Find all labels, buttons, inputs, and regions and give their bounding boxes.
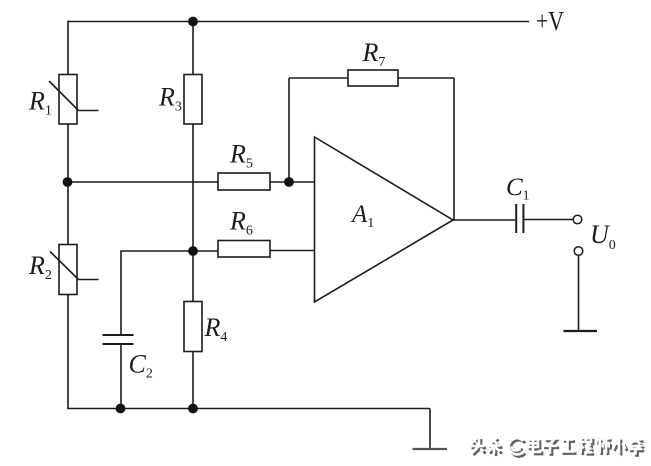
watermark 头条@电子工程师小李 (drawn as shapes) [472, 439, 645, 457]
node: top rail / R3 junction [188, 17, 198, 27]
svg-text:R3: R3 [158, 83, 182, 115]
svg-text:C2: C2 [129, 350, 153, 382]
resistor R1 [49, 75, 99, 125]
resistor R2 [50, 245, 99, 295]
svg-text:C1: C1 [506, 174, 529, 203]
output terminal upper [573, 215, 582, 224]
wire lower terminal to ground [578, 256, 580, 332]
capacitor C2 [103, 335, 134, 344]
node: R6 / R4 junction [188, 246, 198, 256]
resistor R7 [348, 70, 398, 86]
wire R3 bottom to R6 node [192, 123, 194, 251]
ground (output) [564, 330, 598, 332]
wire bottom rail [67, 408, 430, 410]
wire R4 bottom to bottom rail [192, 351, 194, 409]
wire C2 top corner horizontal (inverting row) [121, 251, 219, 335]
resistor R6 [218, 241, 270, 258]
wire R7 left horizontal [289, 77, 349, 79]
svg-text:R2: R2 [28, 251, 52, 283]
svg-text:R6: R6 [229, 207, 253, 239]
wire C2 bottom to bottom rail [120, 344, 122, 409]
wire R7 right horizontal [397, 77, 454, 79]
ground (bottom rail) [413, 448, 448, 450]
svg-text:+V: +V [536, 6, 564, 36]
node: R1/R2 divider junction [63, 177, 73, 187]
output terminal lower [574, 247, 583, 256]
svg-text:R4: R4 [204, 313, 228, 345]
resistor R3 [184, 75, 202, 125]
svg-text:R5: R5 [229, 140, 253, 172]
svg-text:U0: U0 [590, 220, 616, 253]
svg-text:R1: R1 [28, 87, 52, 119]
resistor R4 [184, 302, 202, 352]
wire R6 node to R4 top [192, 251, 194, 302]
wire left branch R2 bottom to bottom rail [67, 294, 69, 409]
wire left branch between R1 and R2 [67, 123, 69, 245]
wire feedback right vertical to output [453, 78, 455, 220]
wire op-amp output to C1 [452, 219, 515, 221]
wire +V top rail [68, 21, 529, 23]
resistor R5 [218, 173, 270, 190]
svg-text:R7: R7 [362, 38, 386, 70]
wire bottom rail to ground [429, 409, 431, 450]
wire R6 to op-amp [269, 250, 315, 252]
wire C1 to terminal [524, 219, 573, 221]
node: C2 / bottom rail junction [116, 404, 126, 414]
node: R4 / bottom rail junction [188, 404, 198, 414]
wire left branch R1 top [67, 21, 69, 75]
wire R3 top [192, 22, 194, 76]
wire noninverting input (R5 row) [68, 181, 219, 183]
wire R5 to op-amp [269, 181, 315, 183]
node: feedback / R5 junction [284, 177, 294, 187]
capacitor C1 [516, 204, 523, 233]
wire feedback left vertical [288, 78, 290, 182]
op-amp A1 [315, 137, 454, 302]
